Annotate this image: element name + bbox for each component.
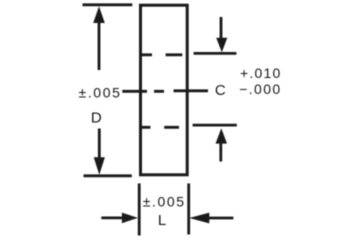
C top arrow tail [220,17,223,38]
C top extension line [194,52,237,55]
L right arrow tail [209,217,234,220]
svg-text:±.005: ±.005 [79,84,122,100]
C bottom extension line [193,124,237,127]
L left-side right-pointing arrowhead [122,213,138,224]
C bottom up arrowhead [216,128,228,143]
svg-text:L: L [158,212,166,229]
svg-text:±.005: ±.005 [143,194,186,210]
top termination band dashed line [139,53,182,56]
svg-text:D: D [91,110,102,127]
C bottom arrow tail [219,144,222,162]
svg-text:+.010: +.010 [240,65,281,81]
part body outline [141,5,188,175]
svg-text:C: C [215,82,226,99]
L left extension line [138,183,141,235]
D dimension line upper segment [98,20,101,70]
D down arrowhead [94,157,105,175]
C top down arrowhead [216,38,227,52]
D up arrowhead [93,6,105,23]
svg-text:−.000: −.000 [239,81,281,97]
D top extension line [83,3,133,6]
bottom termination band dashed line [139,126,179,129]
L left arrow tail [101,216,124,219]
L right-side left-pointing arrowhead [189,213,209,224]
L right extension line [187,183,190,234]
center dashed leader line to C [122,89,208,92]
D bottom extension line [84,174,132,177]
D dimension line lower segment [98,129,101,161]
